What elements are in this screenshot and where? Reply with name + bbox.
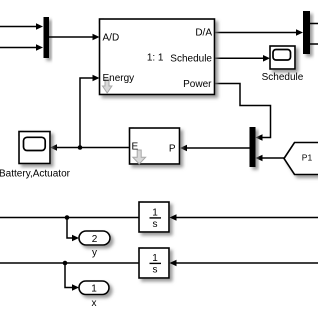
wire junction to Outport 1 [65, 263, 79, 291]
integrator Integrator2 [139, 248, 169, 278]
wire Mux1 to A/D [49, 34, 100, 41]
node junction x [63, 261, 68, 266]
wire input 1 to Mux1 [0, 23, 43, 30]
tag From P1 [284, 143, 320, 175]
mux Mux1 [44, 17, 50, 58]
wire D/A to Demux1 [215, 29, 304, 36]
svg-text:Schedule: Schedule [262, 72, 304, 83]
wire E output to scope and junction [50, 144, 130, 151]
svg-text:s: s [153, 219, 158, 230]
outport 1 [79, 281, 109, 295]
wire Demux1 output stub 2 [310, 43, 318, 45]
wire Power to Mux2 [215, 84, 271, 141]
svg-text:1: 1 [152, 253, 158, 264]
wire input 2 to Mux1 [0, 44, 43, 51]
demux Demux1 [303, 11, 310, 54]
wire Demux1 output stub 1 [310, 23, 318, 25]
svg-text:D/A: D/A [195, 28, 212, 39]
badge variant arrow Energy [103, 79, 112, 93]
svg-text:s: s [153, 265, 158, 276]
wire From-P1 to Mux2 [256, 155, 285, 162]
wire input to Integrator1 [170, 214, 319, 221]
svg-text:Energy: Energy [103, 73, 135, 84]
svg-text:y: y [92, 248, 97, 259]
svg-text:Power: Power [183, 79, 212, 90]
wire Schedule to Scope [215, 55, 271, 62]
wire input to Integrator2 [170, 260, 319, 267]
wire junction to Outport 2 [67, 218, 79, 242]
mux Mux2 [250, 127, 256, 167]
svg-text:x: x [92, 298, 97, 309]
scope Schedule [270, 46, 295, 69]
svg-text:A/D: A/D [103, 33, 120, 44]
badge variant arrow E [133, 150, 146, 164]
scope Battery,Actuator [19, 132, 50, 164]
svg-text:1: 1: 1: 1 [147, 53, 164, 64]
wire Integrator2 output line x [0, 262, 139, 264]
wire Mux2 to P input [180, 145, 250, 152]
wire junction to Energy input [80, 75, 100, 148]
svg-text:Battery,Actuator: Battery,Actuator [0, 169, 71, 180]
node junction E [78, 145, 83, 150]
svg-text:2: 2 [92, 234, 98, 245]
block Battery E/P [130, 128, 180, 164]
outport 2 [79, 231, 110, 245]
svg-text:1: 1 [91, 284, 97, 295]
block Controller subsystem [100, 19, 215, 95]
svg-text:P1: P1 [302, 152, 313, 162]
svg-text:1: 1 [152, 207, 158, 218]
wire Integrator1 output line y [0, 217, 139, 219]
svg-text:P: P [169, 143, 176, 154]
svg-text:Schedule: Schedule [170, 54, 212, 65]
node junction y [65, 215, 70, 220]
integrator Integrator1 [139, 202, 169, 232]
